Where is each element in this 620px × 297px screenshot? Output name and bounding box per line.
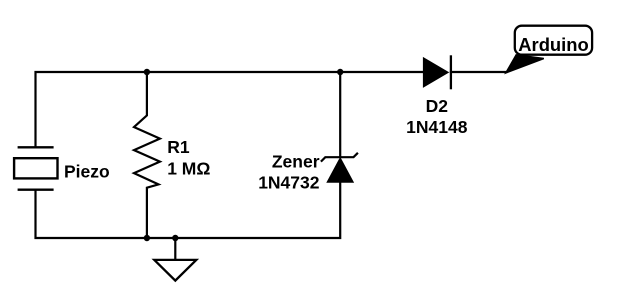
node A junction dot bbox=[144, 69, 150, 75]
wire: D2 cathode to Arduino flag bbox=[451, 71, 506, 73]
wire: ground node D to zener anode corner bbox=[175, 182, 340, 238]
svg-text:D2: D2 bbox=[426, 96, 449, 116]
zener diode 1N4732 bbox=[321, 153, 358, 183]
wire: node B to D2 anode bbox=[340, 71, 423, 73]
ground bbox=[154, 238, 196, 281]
svg-text:1N4148: 1N4148 bbox=[406, 117, 468, 137]
svg-text:Arduino: Arduino bbox=[518, 34, 588, 55]
svg-text:1 MΩ: 1 MΩ bbox=[167, 159, 210, 179]
svg-text:R1: R1 bbox=[167, 137, 190, 157]
node C junction dot bbox=[144, 235, 150, 241]
node D junction dot bbox=[172, 235, 178, 241]
piezo element (crystal symbol) bbox=[14, 147, 57, 189]
svg-text:Zener: Zener bbox=[272, 152, 320, 172]
resistor R1 bbox=[134, 72, 160, 238]
wire: piezo top to node A (top-left corner) bbox=[36, 72, 147, 146]
node B junction dot bbox=[337, 69, 343, 75]
svg-text:1N4732: 1N4732 bbox=[258, 173, 320, 193]
svg-text:Piezo: Piezo bbox=[64, 161, 110, 181]
diode D2 bbox=[423, 55, 451, 89]
wire: bottom rail node C to ground node D bbox=[147, 237, 175, 239]
Arduino net flag bbox=[506, 26, 592, 73]
wire: node A to node B (top middle) bbox=[147, 71, 340, 73]
wire: piezo bottom to bottom rail bbox=[36, 191, 147, 238]
wire: zener cathode stub from node B bbox=[339, 72, 341, 157]
